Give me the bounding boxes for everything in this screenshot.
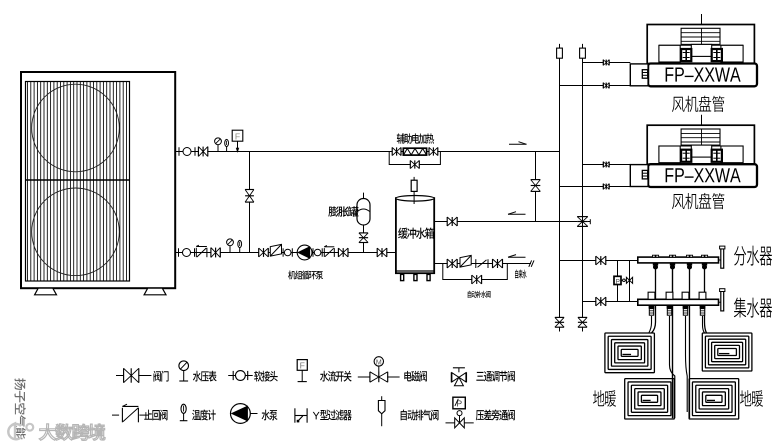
riser 2 (supply) [582, 58, 584, 331]
legend Y-strainer symbol [294, 408, 296, 422]
collector return line [583, 301, 638, 303]
legend flexible joint symbol [228, 375, 253, 377]
fan circle top [32, 84, 120, 172]
air vent riser 1 [559, 44, 561, 48]
valve tank outlet (top) [448, 217, 457, 226]
flexible joint (pump out) [312, 248, 314, 256]
water flow switch F [237, 141, 239, 151]
legend label: three-way regulating valve [476, 371, 515, 382]
flexible joint (supply) [178, 147, 180, 155]
legend valve symbol [116, 375, 151, 377]
flow arrow left (make-up) [508, 256, 526, 258]
auxiliary electric heater [403, 148, 426, 155]
thermometer (supply) [226, 147, 228, 152]
return pipe to unit (bottom) [175, 252, 396, 254]
valve at riser junction [577, 217, 588, 226]
pressure bypass leg 1 [617, 261, 619, 302]
flexible joint (pump in) [282, 248, 284, 256]
drain valve riser 2 [578, 318, 587, 327]
FCU2 return branch [560, 186, 631, 188]
legend label: thermometer [192, 410, 216, 421]
pipe break marks [529, 260, 532, 266]
thermometer (return) [239, 248, 241, 253]
label: floor heating right [740, 390, 763, 407]
valve before heater [393, 147, 401, 155]
label: floor heating left [593, 390, 616, 407]
legend label: water pump [262, 410, 278, 421]
legend label: Y-strainer [313, 412, 320, 420]
expansion tank branch [363, 225, 365, 253]
valve after heater [429, 147, 437, 155]
FCU2 supply branch [583, 164, 631, 166]
valve (make-up 2) [493, 259, 502, 268]
check valve (make-up) [475, 259, 477, 268]
label: automatic make-up water valve [468, 291, 491, 298]
flow arrow left (tank header) [508, 213, 526, 215]
valve on bypass [245, 190, 254, 202]
valve (make-up) [448, 259, 457, 268]
legend label: flow switch [320, 371, 352, 382]
legend label: solenoid valve [404, 371, 427, 382]
legend solenoid valve symbol [358, 376, 400, 378]
legend label: differential pressure bypass valve [476, 409, 515, 420]
pressure gauge (return) [229, 246, 231, 253]
valve before buffer tank [378, 248, 387, 257]
distributor supply line [560, 260, 638, 262]
air vent riser 2 [582, 44, 584, 48]
floor heating coil top-right [702, 333, 752, 371]
valve on heater bypass [411, 160, 419, 168]
automatic make-up valve (bypass) [472, 275, 481, 284]
legend automatic air vent symbol [381, 396, 383, 400]
check valve (return) [195, 248, 197, 257]
fan coil unit FCU2 [630, 115, 757, 187]
legend label: valve [153, 371, 168, 382]
gray watermark text [39, 424, 105, 441]
flexible joint (return) [178, 248, 180, 256]
floor heating coil bottom-left [625, 379, 675, 419]
legend label: check valve [144, 410, 167, 421]
label: expansion tank [328, 206, 358, 217]
label: fan coil unit 1 [672, 96, 724, 112]
legend label: flexible joint [254, 371, 278, 382]
riser 1 (return) [559, 58, 561, 331]
bypass between supply and return [249, 152, 251, 253]
svg-text:F: F [300, 361, 305, 371]
make-up bypass [443, 264, 508, 280]
label: buffer tank [398, 228, 434, 239]
expansion tank [363, 193, 365, 199]
air vent on tank [413, 191, 415, 204]
unit foot right [144, 288, 166, 295]
pressure bypass leg 2 [629, 261, 631, 302]
gray watermark logo [8, 424, 33, 441]
pressure gauge (supply) [217, 145, 219, 152]
distributor (manifold) [638, 257, 719, 263]
legend check valve symbol [112, 414, 119, 416]
circulation pump [297, 245, 312, 260]
valve (pump discharge) [339, 248, 348, 257]
drain valve riser 1 [555, 318, 564, 327]
floor heating coil bottom-right [689, 379, 739, 419]
label: auxiliary electric heater [397, 133, 434, 143]
valve on drop leg [531, 180, 541, 191]
Y strainer (pump suction) [270, 244, 281, 256]
fan circle bottom [32, 188, 120, 276]
legend three-way regulating valve symbol [453, 367, 465, 369]
drop leg from supply to tank header [535, 152, 537, 222]
legend label: automatic air vent [401, 410, 439, 421]
valve (supply) [199, 147, 208, 157]
legend label: pressure gauge [193, 371, 217, 382]
tank feet [401, 274, 404, 280]
floor heating coil top-left [605, 333, 655, 373]
buffer tank [396, 198, 434, 273]
label: water distributor [734, 246, 772, 266]
collector (manifold) [638, 299, 719, 305]
svg-text:F: F [235, 131, 240, 141]
floor loop pipes [652, 268, 656, 333]
heat pump outdoor unit [21, 72, 175, 288]
label: water collector [734, 298, 772, 318]
supply pipe from unit (top) [175, 151, 559, 153]
fan coil unit FCU1 [630, 14, 757, 86]
svg-text:P: P [616, 278, 620, 285]
legend pressure gauge symbol [183, 370, 185, 381]
legend pump symbol [250, 413, 258, 415]
check valve (pump) [323, 248, 325, 257]
FCU1 supply branch [583, 62, 631, 64]
legend differential pressure bypass valve symbol [446, 422, 474, 424]
legend thermometer symbol [183, 412, 185, 421]
valve before strainer [259, 248, 268, 257]
vertical watermark text [14, 378, 25, 439]
electric heater bypass [389, 152, 440, 165]
valve (return) [211, 248, 220, 258]
label: fan coil unit 2 [672, 193, 724, 209]
differential pressure bypass valve [614, 276, 621, 284]
legend flow switch symbol [301, 370, 303, 381]
svg-text:M: M [376, 359, 382, 366]
FCU1 return branch [560, 85, 631, 87]
Y strainer (make-up) [460, 255, 471, 267]
valve under expansion tank [359, 233, 368, 242]
unit foot left [35, 288, 57, 295]
make-up water pipe [434, 263, 531, 265]
tank supply header [434, 221, 582, 223]
label: tap water [515, 270, 527, 279]
flow arrow right (supply) [509, 143, 527, 145]
label: unit circulation pump [288, 271, 323, 280]
